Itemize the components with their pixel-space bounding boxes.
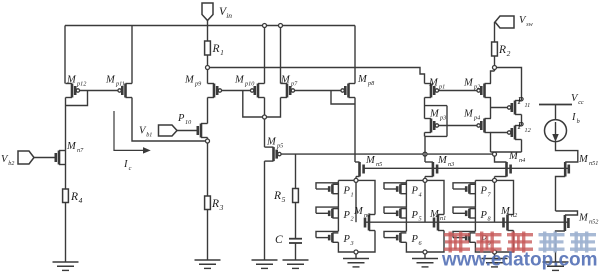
svg-text:n4: n4 [519, 157, 525, 164]
svg-text:R: R [211, 198, 219, 210]
svg-text:M: M [437, 155, 448, 166]
svg-text:p11: p11 [115, 80, 125, 87]
svg-text:M: M [105, 75, 116, 86]
svg-text:R: R [273, 190, 281, 202]
svg-text:n51: n51 [589, 160, 598, 167]
svg-text:5: 5 [282, 195, 286, 204]
svg-text:n5: n5 [376, 161, 382, 168]
svg-text:3: 3 [350, 240, 354, 247]
svg-text:n6: n6 [364, 212, 371, 219]
svg-text:P: P [411, 210, 419, 221]
svg-text:12: 12 [525, 127, 531, 134]
svg-text:p10: p10 [244, 80, 255, 87]
svg-text:3: 3 [219, 203, 224, 212]
svg-text:1: 1 [351, 191, 354, 198]
svg-text:4: 4 [79, 196, 83, 205]
svg-text:2: 2 [507, 49, 511, 58]
svg-text:R: R [70, 191, 78, 203]
svg-text:p8: p8 [367, 80, 375, 87]
svg-text:R: R [498, 44, 506, 56]
svg-text:p1: p1 [438, 83, 445, 90]
svg-text:M: M [429, 209, 440, 220]
svg-text:10: 10 [185, 119, 192, 126]
svg-text:M: M [66, 141, 77, 152]
svg-text:M: M [234, 75, 245, 86]
svg-text:I: I [571, 112, 576, 123]
svg-text:11: 11 [525, 102, 531, 109]
svg-text:M: M [184, 75, 195, 86]
svg-text:I: I [123, 159, 128, 170]
svg-text:p4: p4 [473, 114, 480, 121]
svg-text:P: P [177, 113, 185, 124]
svg-text:M: M [428, 78, 439, 89]
svg-text:1: 1 [220, 48, 224, 57]
svg-text:in: in [226, 11, 232, 20]
svg-text:b1: b1 [146, 131, 152, 138]
svg-text:M: M [266, 137, 277, 148]
svg-text:M: M [463, 78, 474, 89]
svg-text:b2: b2 [8, 160, 14, 167]
svg-text:p7: p7 [290, 80, 298, 87]
svg-text:P: P [480, 210, 488, 221]
svg-text:c: c [129, 165, 132, 172]
svg-text:P: P [411, 186, 419, 197]
svg-text:P: P [411, 234, 419, 245]
svg-text:C: C [275, 234, 283, 246]
svg-text:p3: p3 [439, 114, 446, 121]
svg-text:n7: n7 [77, 147, 84, 154]
svg-text:4: 4 [419, 191, 422, 198]
svg-text:M: M [578, 154, 589, 165]
svg-text:n52: n52 [589, 218, 598, 225]
svg-text:p2: p2 [473, 83, 480, 90]
svg-text:n3: n3 [448, 161, 454, 168]
svg-text:www.edatop.com: www.edatop.com [441, 250, 598, 271]
svg-text:P: P [343, 234, 351, 245]
svg-text:p5: p5 [276, 142, 283, 149]
svg-text:sw: sw [526, 21, 533, 28]
svg-text:M: M [429, 109, 440, 120]
svg-text:P: P [517, 96, 525, 107]
svg-text:cc: cc [578, 99, 584, 106]
svg-text:M: M [280, 75, 291, 86]
svg-text:M: M [66, 75, 77, 86]
svg-text:M: M [463, 109, 474, 120]
svg-text:R: R [212, 43, 220, 55]
svg-text:M: M [365, 155, 376, 166]
svg-text:p12: p12 [76, 80, 86, 87]
svg-text:p9: p9 [194, 80, 201, 87]
svg-text:M: M [500, 206, 511, 217]
svg-text:P: P [517, 121, 525, 132]
svg-text:P: P [343, 210, 351, 221]
svg-text:P: P [480, 186, 488, 197]
svg-text:n2: n2 [511, 212, 517, 219]
svg-text:M: M [578, 213, 589, 224]
svg-text:b: b [577, 118, 580, 125]
svg-text:M: M [357, 74, 368, 85]
svg-text:P: P [343, 186, 351, 197]
svg-text:M: M [353, 206, 364, 217]
svg-text:n1: n1 [440, 215, 446, 222]
